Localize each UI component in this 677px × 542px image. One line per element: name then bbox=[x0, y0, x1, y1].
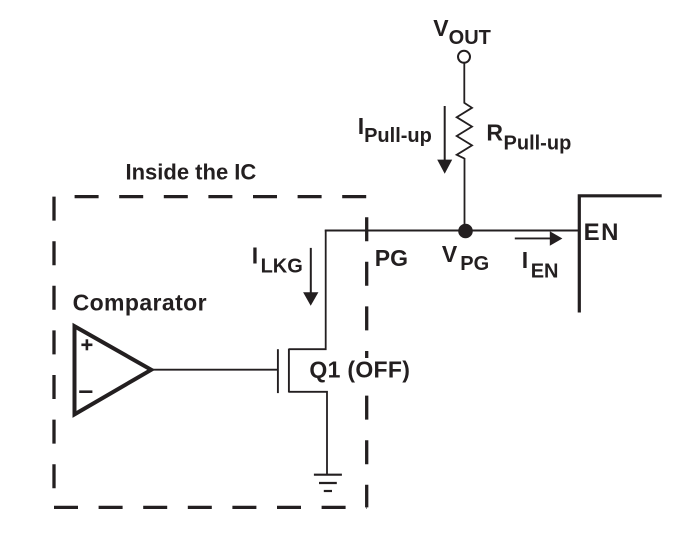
svg-text:EN: EN bbox=[584, 219, 620, 246]
label Q1 (OFF) bbox=[305, 357, 413, 384]
wire VOUT terminal to resistor bbox=[463, 63, 465, 104]
pin EN bracket bbox=[579, 196, 661, 313]
current arrow ILKG bbox=[303, 248, 318, 306]
ground bbox=[314, 475, 342, 491]
resistor RPull-up bbox=[457, 103, 472, 159]
transistor Q1 gate bar bbox=[277, 349, 279, 393]
current arrow IEN bbox=[515, 231, 563, 245]
op-amp comparator triangle bbox=[75, 326, 152, 414]
IC boundary dashed box bbox=[54, 197, 367, 508]
svg-text:PG: PG bbox=[375, 245, 408, 271]
transistor Q1 drain wire up to PG wire bbox=[289, 230, 326, 349]
wire PG horizontal bbox=[325, 229, 579, 231]
transistor Q1 source wire down to ground bbox=[289, 392, 327, 474]
svg-text:Comparator: Comparator bbox=[73, 290, 207, 316]
current arrow IPull-up bbox=[437, 106, 452, 174]
wire comparator output to gate bbox=[152, 369, 278, 371]
terminal VOUT bbox=[458, 51, 470, 63]
node VPG junction dot bbox=[458, 224, 473, 239]
minus input bbox=[79, 390, 92, 393]
wire resistor to node VPG bbox=[464, 158, 466, 232]
transistor Q1 channel bar bbox=[288, 349, 290, 393]
plus input bbox=[81, 339, 92, 350]
svg-text:Q1 (OFF): Q1 (OFF) bbox=[309, 357, 410, 383]
svg-text:Inside the IC: Inside the IC bbox=[126, 160, 257, 185]
